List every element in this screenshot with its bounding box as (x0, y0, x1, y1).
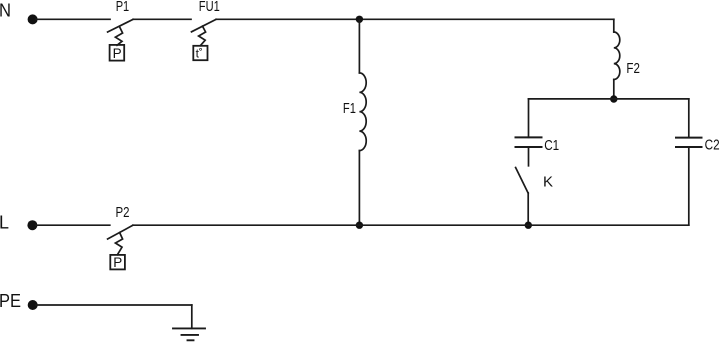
capacitor C1 top plate (516, 136, 542, 138)
wire node horizontal C1 to C2 (529, 98, 689, 100)
svg-text:C2: C2 (705, 138, 720, 154)
wire F2 to node (613, 80, 615, 100)
junction dot top of F1 (356, 16, 363, 23)
switch P1 actuator zigzag (115, 27, 122, 46)
junction dot F2 node (610, 95, 617, 102)
inductor F1 bottom lead (358, 151, 360, 226)
node N terminal dot (28, 14, 38, 24)
fuse-switch FU1 actuator box (193, 46, 207, 60)
svg-text:N: N (0, 1, 11, 21)
switch P1 actuator box (110, 45, 125, 61)
wire PE horizontal (36, 304, 192, 306)
svg-text:F1: F1 (343, 101, 356, 117)
wire L rail P2 to C2 (133, 224, 689, 226)
switch P2 actuator zigzag (115, 233, 122, 255)
wire C1 to switch K (528, 147, 530, 166)
switch P2 blade (108, 225, 133, 239)
wire N terminal to P1 (36, 18, 110, 20)
wire P1 to FU1 (133, 18, 191, 20)
svg-text:FU1: FU1 (199, 0, 220, 15)
switch P2 actuator box (110, 255, 125, 270)
svg-text:t˚: t˚ (196, 46, 203, 60)
svg-text:K: K (543, 175, 553, 191)
svg-text:P: P (113, 255, 122, 270)
capacitor C2 bottom plate (676, 146, 702, 148)
capacitor C2 top plate (676, 137, 702, 139)
switch P1 blade (108, 19, 133, 32)
wire C2 to bottom rail (688, 147, 690, 225)
inductor F1 top lead (358, 19, 360, 73)
ground symbol (173, 328, 205, 340)
svg-text:PE: PE (0, 291, 21, 311)
node L terminal dot (27, 220, 37, 230)
svg-text:P1: P1 (116, 0, 130, 15)
wire K to bottom rail (527, 193, 529, 225)
wire PE down to ground (191, 305, 193, 328)
inductor F2 coil (614, 32, 620, 80)
svg-text:P: P (113, 46, 122, 61)
wire down to C2 (688, 99, 690, 138)
inductor F1 coil (359, 73, 366, 151)
switch K blade (516, 168, 529, 194)
svg-text:L: L (0, 212, 9, 232)
node PE terminal dot (28, 300, 38, 310)
capacitor C1 bottom plate (516, 146, 542, 148)
wire FU1 to top-right corner (216, 18, 614, 20)
wire down to C1 (528, 99, 530, 137)
svg-text:C1: C1 (544, 138, 559, 154)
svg-text:P2: P2 (116, 205, 130, 221)
junction dot bottom of F1 (356, 222, 363, 229)
wire top-right corner down to F2 (613, 19, 615, 32)
fuse-switch FU1 blade (192, 19, 217, 31)
wire L terminal to P2 (36, 224, 110, 226)
junction dot K bottom (525, 222, 532, 229)
fuse-switch FU1 actuator zigzag (199, 26, 206, 45)
svg-text:F2: F2 (626, 61, 640, 77)
